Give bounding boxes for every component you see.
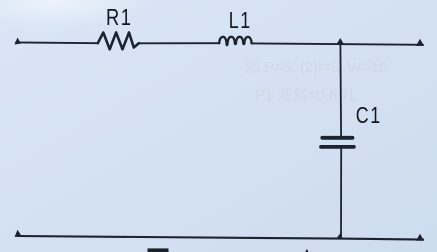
svg-text:R1: R1 xyxy=(106,5,133,31)
svg-text:L1: L1 xyxy=(229,8,252,34)
svg-text:知 P=5, (2)f=5, W=10: 知 P=5, (2)f=5, W=10 xyxy=(245,59,387,76)
svg-text:C1: C1 xyxy=(356,103,382,129)
